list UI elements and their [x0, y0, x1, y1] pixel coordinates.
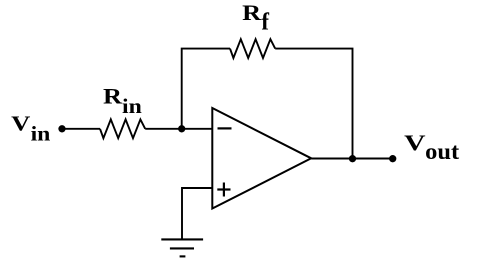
- svg-text:V: V: [404, 130, 426, 155]
- node junction A: [178, 125, 185, 132]
- label Rin: [103, 84, 142, 118]
- svg-text:R: R: [242, 0, 262, 25]
- pin plus: [217, 183, 230, 197]
- label Rf: [242, 0, 270, 35]
- svg-text:V: V: [11, 111, 31, 135]
- ground: [161, 239, 203, 256]
- label Vout: [404, 130, 459, 164]
- resistor Rf: [230, 39, 275, 58]
- wire: [182, 188, 212, 239]
- wire: [182, 49, 230, 129]
- svg-text:R: R: [103, 84, 123, 109]
- svg-text:in: in: [122, 94, 142, 118]
- pin minus: [218, 127, 232, 129]
- wire: [62, 128, 100, 130]
- wire: [311, 158, 393, 160]
- svg-text:out: out: [425, 139, 459, 164]
- svg-text:f: f: [261, 9, 270, 35]
- resistor Rin: [100, 119, 145, 138]
- svg-text:in: in: [31, 121, 51, 145]
- wire: [145, 128, 212, 130]
- node Vin terminal: [58, 125, 65, 132]
- label Vin: [11, 111, 50, 145]
- node junction B: [349, 155, 356, 162]
- op-amp U1: [212, 108, 311, 209]
- wire: [275, 49, 352, 159]
- node Vout terminal: [389, 155, 396, 162]
